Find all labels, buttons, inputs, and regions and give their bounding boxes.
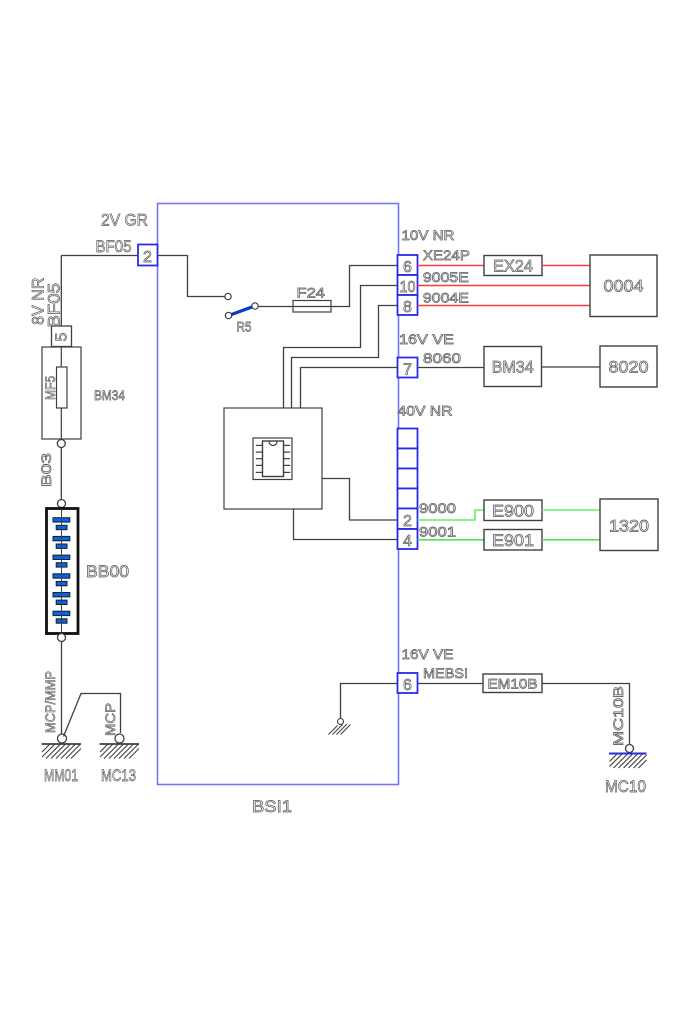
battery bottom circle <box>58 634 66 642</box>
switch R5 terminal bottom <box>225 312 231 318</box>
unused pin box 1 <box>398 429 418 449</box>
svg-text:MCP/MMP: MCP/MMP <box>43 671 58 733</box>
svg-text:9000: 9000 <box>419 501 456 516</box>
red wire pin10 to 0004 <box>418 285 591 287</box>
IC notch <box>269 442 277 446</box>
green wire E900 to 1320 <box>542 509 600 511</box>
wire through fuse <box>60 347 62 440</box>
wire ECU to pin 2 <box>322 479 398 521</box>
connector circle below fuse <box>57 440 65 448</box>
battery cells blue bars <box>53 518 70 624</box>
switch R5 terminal top <box>225 293 231 299</box>
svg-text:6: 6 <box>403 677 412 694</box>
battery center wire <box>61 510 63 632</box>
svg-text:9001: 9001 <box>419 525 456 540</box>
wire pin 8 to ECU <box>292 306 398 409</box>
fuse MF5 outer box <box>42 347 81 439</box>
svg-text:4: 4 <box>403 533 412 550</box>
red wire pin8 to 0004 <box>418 305 591 307</box>
svg-text:MC10B: MC10B <box>611 686 626 746</box>
BSI1 unit box <box>158 204 399 785</box>
svg-text:9005E: 9005E <box>423 270 469 285</box>
svg-text:XE24P: XE24P <box>423 248 470 263</box>
green wire E901 to 1320 <box>542 539 600 541</box>
svg-text:EX24: EX24 <box>493 257 533 276</box>
pin box 10 <box>398 275 418 295</box>
svg-text:16V VE: 16V VE <box>399 332 454 347</box>
1320 box <box>600 499 658 551</box>
svg-text:10V NR: 10V NR <box>402 228 455 243</box>
wire B03 <box>60 448 62 500</box>
wire EM10B to MC10 <box>542 684 630 745</box>
ground MM01 circle <box>58 734 67 743</box>
unused pin box 4 <box>398 489 418 509</box>
svg-text:2: 2 <box>403 513 412 530</box>
connector box 5 (BF05) <box>52 326 72 347</box>
svg-text:2V GR: 2V GR <box>101 211 148 230</box>
wire pin 10 to ECU <box>284 286 398 409</box>
svg-text:7: 7 <box>403 362 412 379</box>
svg-text:8020: 8020 <box>609 358 649 377</box>
link wire MM01 to MC13 <box>64 694 121 737</box>
wire ECU to pin 4 <box>294 509 398 540</box>
switch R5 blade <box>232 307 253 315</box>
fuse MF5 symbol <box>57 367 68 408</box>
0004 box <box>590 255 657 317</box>
ECU square <box>224 408 322 509</box>
wire battery to ground <box>61 642 63 735</box>
svg-text:BM34: BM34 <box>94 388 125 403</box>
svg-text:MCP: MCP <box>103 703 118 736</box>
EM10B box <box>483 674 542 693</box>
IC pins right <box>284 445 291 472</box>
pin 2 box <box>138 245 158 266</box>
wire pin6b to EM10B <box>418 683 484 685</box>
wire BM34 to 8020 <box>542 366 601 368</box>
pin box 2 <box>398 509 418 530</box>
8020 box <box>600 346 657 387</box>
wire pin 7 to ECU <box>301 368 398 409</box>
svg-text:F24: F24 <box>297 286 326 301</box>
wire pin2 to switch R5 <box>158 256 225 297</box>
pin box 8 <box>398 295 418 315</box>
unused pin box 3 <box>398 469 418 489</box>
svg-text:MF5: MF5 <box>43 376 58 400</box>
svg-text:40V NR: 40V NR <box>398 404 453 419</box>
svg-text:8: 8 <box>403 299 412 316</box>
IC pins left <box>256 445 263 472</box>
svg-text:MEBSI: MEBSI <box>423 666 468 681</box>
svg-text:E900: E900 <box>492 502 534 521</box>
wire F24 to pin 6 <box>331 266 398 307</box>
svg-text:6: 6 <box>403 259 412 276</box>
svg-text:BB00: BB00 <box>86 562 129 581</box>
green wire pin4 to E901 <box>418 539 485 541</box>
svg-text:BSI1: BSI1 <box>252 797 292 816</box>
svg-text:5: 5 <box>54 333 71 342</box>
svg-text:BM34: BM34 <box>492 358 534 377</box>
svg-text:E901: E901 <box>492 531 534 550</box>
IC body <box>263 441 284 477</box>
wire BF05 horizontal <box>61 255 138 257</box>
ground MC10 circle <box>626 745 634 753</box>
unused pin box 2 <box>398 449 418 469</box>
svg-text:B03: B03 <box>39 453 54 487</box>
wire down to connector 5 <box>60 256 62 327</box>
ground MC13 circle <box>115 734 124 743</box>
pin box 7 <box>398 358 418 378</box>
svg-text:10: 10 <box>400 279 416 296</box>
svg-text:16V VE: 16V VE <box>402 647 454 662</box>
ground MC13 bar and hatch <box>100 744 140 759</box>
internal ground symbol <box>338 719 344 725</box>
ECU inner module <box>253 438 292 480</box>
EX24 box <box>484 256 542 276</box>
svg-text:EM10B: EM10B <box>488 677 538 692</box>
red wire EX24 to 0004 <box>542 265 590 267</box>
svg-text:1320: 1320 <box>609 517 649 536</box>
svg-text:8060: 8060 <box>423 351 461 366</box>
wire pin7 to BM34 <box>418 367 485 369</box>
BM34 box <box>484 347 542 387</box>
svg-text:R5: R5 <box>237 320 252 335</box>
red wire pin6 to EX24 <box>418 265 485 267</box>
svg-text:9004E: 9004E <box>423 291 469 306</box>
ground MM01 bar and hatch <box>42 744 82 759</box>
pin box 6b <box>398 673 418 693</box>
switch R5 terminal right <box>252 303 258 309</box>
ground MC10 hatch <box>610 754 647 769</box>
svg-text:BF05: BF05 <box>96 237 132 256</box>
ground MC10 blue bar <box>609 753 647 755</box>
green wire pin2 to E900 <box>418 510 485 520</box>
svg-text:MC13: MC13 <box>101 766 136 785</box>
svg-text:0004: 0004 <box>604 277 644 296</box>
wire pin 6b to internal ground <box>341 684 398 720</box>
fuse F24 <box>293 301 331 313</box>
svg-text:MM01: MM01 <box>44 766 78 785</box>
pin box 6 <box>398 255 418 275</box>
pin box 4 <box>398 529 418 549</box>
E900 box <box>484 500 542 521</box>
wire switch to fuse F24 <box>258 306 293 308</box>
battery BB00 body <box>47 509 79 634</box>
battery top circle <box>58 500 66 508</box>
svg-text:MC10: MC10 <box>605 777 646 796</box>
E901 box <box>484 530 542 551</box>
svg-text:2: 2 <box>143 249 152 266</box>
